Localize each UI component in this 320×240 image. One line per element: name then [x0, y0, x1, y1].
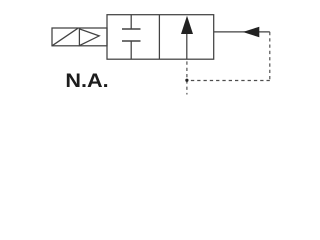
pilot dashed vertical right [269, 32, 271, 81]
closed seat stem bottom [130, 41, 132, 59]
closed seat bar top [122, 28, 141, 30]
junction dot [185, 79, 188, 82]
closed seat stem top [130, 15, 132, 29]
pilot dashed vertical left [186, 59, 188, 94]
solenoid coil diagonal [52, 28, 78, 46]
svg-text:N.A.: N.A. [65, 71, 108, 92]
solenoid coil frame [52, 28, 107, 46]
valve position divider [158, 15, 160, 60]
pilot arrow head [243, 27, 259, 38]
closed seat bar bottom [122, 40, 141, 42]
valve body [107, 15, 214, 60]
pilot dashed horizontal [187, 80, 270, 82]
flow arrow stem [186, 34, 188, 59]
pilot line solid [214, 31, 270, 33]
solenoid coil triangle [79, 29, 99, 46]
flow arrow head [181, 16, 193, 34]
